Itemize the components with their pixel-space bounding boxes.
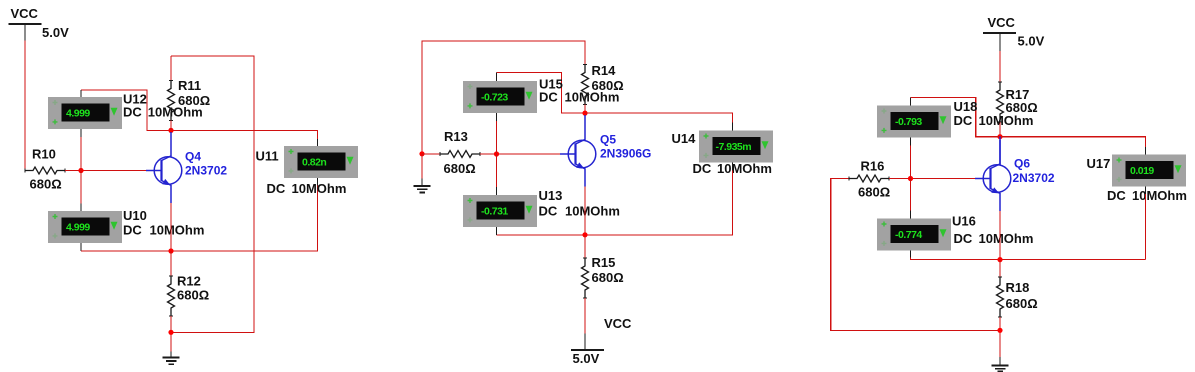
wire U18 top pin [910,98,912,106]
svg-text:U10: U10 [123,208,147,223]
svg-text:2N3702: 2N3702 [185,164,227,178]
wire Q6 collector down [999,211,1001,260]
node base junction mid [494,151,499,156]
power VCC1 5.0V [9,6,70,40]
svg-text:DC: DC [954,113,973,128]
RIGHT CIRCUIT [831,15,1187,372]
transistor Q5 2N3906G [560,115,651,187]
svg-text:DC: DC [954,231,973,246]
svg-text:R12: R12 [177,273,201,288]
svg-text:4.999: 4.999 [66,221,90,233]
svg-text:-0.731: -0.731 [481,205,508,217]
node emitter junction mid [582,232,587,237]
svg-text:U13: U13 [539,188,563,203]
svg-text:5.0V: 5.0V [1018,33,1045,48]
voltmeter U11 [256,146,359,196]
svg-text:R11: R11 [178,78,201,93]
wire U14 top pin [732,123,734,131]
svg-text:R18: R18 [1006,280,1030,295]
svg-text:-7.935m: -7.935m [716,141,752,153]
power VCC2 5.0V bottom [571,316,632,366]
resistor R11 680ohm [168,78,211,121]
voltmeter U17 [1087,155,1187,203]
wire U18 bottom pin to base node [910,138,912,179]
svg-text:2N3702: 2N3702 [1013,171,1055,185]
wire U16 bottom pin to collector line [911,251,1146,260]
svg-text:DC: DC [539,203,558,218]
wire Q5 collector down [584,187,586,235]
svg-text:680Ω: 680Ω [444,161,476,176]
svg-text:680Ω: 680Ω [177,287,209,302]
svg-text:VCC: VCC [11,6,39,21]
svg-text:U17: U17 [1087,156,1111,171]
svg-text:5.0V: 5.0V [42,25,69,40]
voltmeter U18 [877,99,1033,138]
svg-text:DC: DC [123,105,142,120]
svg-text:5.0V: 5.0V [573,351,600,366]
wire U12 top pin [80,90,82,97]
wire U17 bottom pin to collector line [1145,187,1147,260]
wire node to U17 top [1000,137,1146,147]
wire junction to R15 [584,235,586,258]
svg-text:DC: DC [693,161,712,176]
svg-text:VCC: VCC [988,15,1016,30]
wire base line mid [422,153,440,155]
svg-text:2N3906G: 2N3906G [600,147,651,161]
wire R12 bottom to ground node [170,316,172,352]
wire Q4 collector down [170,203,172,251]
resistor R12 680ohm [168,273,210,316]
node collector junction right [997,257,1002,262]
svg-text:0.019: 0.019 [1130,165,1154,177]
svg-text:0.82n: 0.82n [302,156,326,168]
node ground junction right [997,328,1002,333]
voltmeter U12 [48,92,203,130]
wire U12 plus pin loop to collector node [81,90,318,131]
node collector-bottom junction [168,248,173,253]
resistor R17 680ohm [997,82,1038,122]
svg-text:DC: DC [123,222,142,237]
svg-text:U16: U16 [952,213,976,228]
ground GND2 [414,179,431,193]
svg-text:10MOhm: 10MOhm [717,161,772,176]
svg-text:Q6: Q6 [1014,157,1030,171]
wire R10 to Q4 base [65,170,148,172]
node R14 junction [582,111,587,116]
wire U16 top pin from base node [910,179,912,219]
ground GND1 [163,352,180,365]
wire U11 top pin drop [317,130,319,146]
wire R16 left loop [831,179,1000,331]
resistor R10 680ohm [25,147,65,192]
svg-text:-0.774: -0.774 [895,229,922,241]
svg-text:680Ω: 680Ω [858,184,890,199]
node R17 junction [997,134,1002,139]
wire node to U18 top [911,98,1001,137]
voltmeter U15 [463,76,619,113]
svg-text:4.999: 4.999 [66,107,90,119]
wire R13 to Q5 base [480,153,562,155]
svg-text:R10: R10 [32,147,56,162]
wire U15 top pin [496,73,498,82]
wire ground drop mid [421,154,423,179]
svg-text:DC: DC [267,181,286,196]
wire U11 bottom pin riser [317,178,319,252]
svg-text:680Ω: 680Ω [592,78,624,93]
wire junction to R18 [999,260,1001,277]
svg-text:10MOhm: 10MOhm [150,222,205,237]
svg-text:Q4: Q4 [185,149,201,163]
svg-text:10MOhm: 10MOhm [1132,188,1187,203]
wire U14 bottom pin to emitter line [497,163,733,235]
resistor R14 680ohm [582,63,624,105]
wire junction to U14 top [585,113,733,122]
wire U13 bottom pin [496,227,498,235]
wire R14 bottom to junction [584,105,586,114]
svg-text:U11: U11 [256,148,279,163]
resistor R16 680ohm [849,158,890,199]
node base junction right [908,176,913,181]
voltmeter U14 [672,131,774,176]
svg-text:680Ω: 680Ω [30,177,62,192]
voltmeter U16 [877,213,1033,250]
node collector-top junction [168,128,173,133]
node base junction [78,168,83,173]
wire U17 top pin [1145,147,1147,155]
wire R18 bottom to ground node [999,317,1001,357]
wire U10 top pin from base node [80,171,82,212]
svg-text:U18: U18 [954,99,978,114]
svg-text:R15: R15 [592,255,616,270]
wire VCC1 to R10 [25,41,26,171]
wire R11 bottom to junction [170,121,172,131]
resistor R13 680ohm [440,129,480,176]
wire R16 to Q6 base [889,178,978,180]
wire R15 bottom to VCC2 [584,298,586,333]
svg-text:U14: U14 [672,131,697,146]
power VCC3 5.0V [983,15,1045,51]
wire junction to R12 [170,251,172,276]
wire U13 top pin from base node [496,154,498,195]
svg-text:10MOhm: 10MOhm [979,231,1034,246]
resistor R18 680ohm [997,277,1038,317]
ground GND3 [992,357,1009,371]
wire U12 bottom pin to base node [80,129,82,171]
svg-text:10MOhm: 10MOhm [979,113,1034,128]
wire U15 bottom pin to base node [496,113,498,154]
svg-text:DC: DC [1107,188,1126,203]
transistor Q4 2N3702 [146,132,227,203]
svg-text:-0.723: -0.723 [481,91,508,103]
node ground junction mid [419,151,424,156]
svg-text:680Ω: 680Ω [592,270,624,285]
wire U15 plus loop to R14 bottom node [497,73,586,114]
wire R17 bottom to node [999,122,1001,137]
svg-text:R16: R16 [861,158,885,173]
voltmeter U13 [463,188,620,227]
svg-text:VCC: VCC [604,316,632,331]
wire U10 bottom pin to emitter node line [81,243,318,251]
svg-text:DC: DC [539,89,558,104]
resistor R15 680ohm [582,255,624,298]
LEFT CIRCUIT [9,6,359,364]
svg-text:680Ω: 680Ω [1006,296,1038,311]
node ground junction [168,330,173,335]
svg-text:-0.793: -0.793 [895,116,922,128]
wire VCC3 to R17 [999,51,1001,82]
wire Q6 emitter top [999,137,1001,165]
svg-text:10MOhm: 10MOhm [565,203,620,218]
wire R11 top [170,56,172,81]
voltmeter U10 [48,208,204,243]
svg-text:R14: R14 [592,63,617,78]
svg-text:10MOhm: 10MOhm [292,181,347,196]
transistor Q6 2N3702 [975,140,1055,211]
wire top rail mid [422,41,585,154]
svg-text:680Ω: 680Ω [178,93,210,108]
svg-text:Q5: Q5 [600,132,616,146]
wire top rail [171,56,254,332]
svg-text:R13: R13 [444,129,468,144]
MIDDLE CIRCUIT [414,41,774,366]
